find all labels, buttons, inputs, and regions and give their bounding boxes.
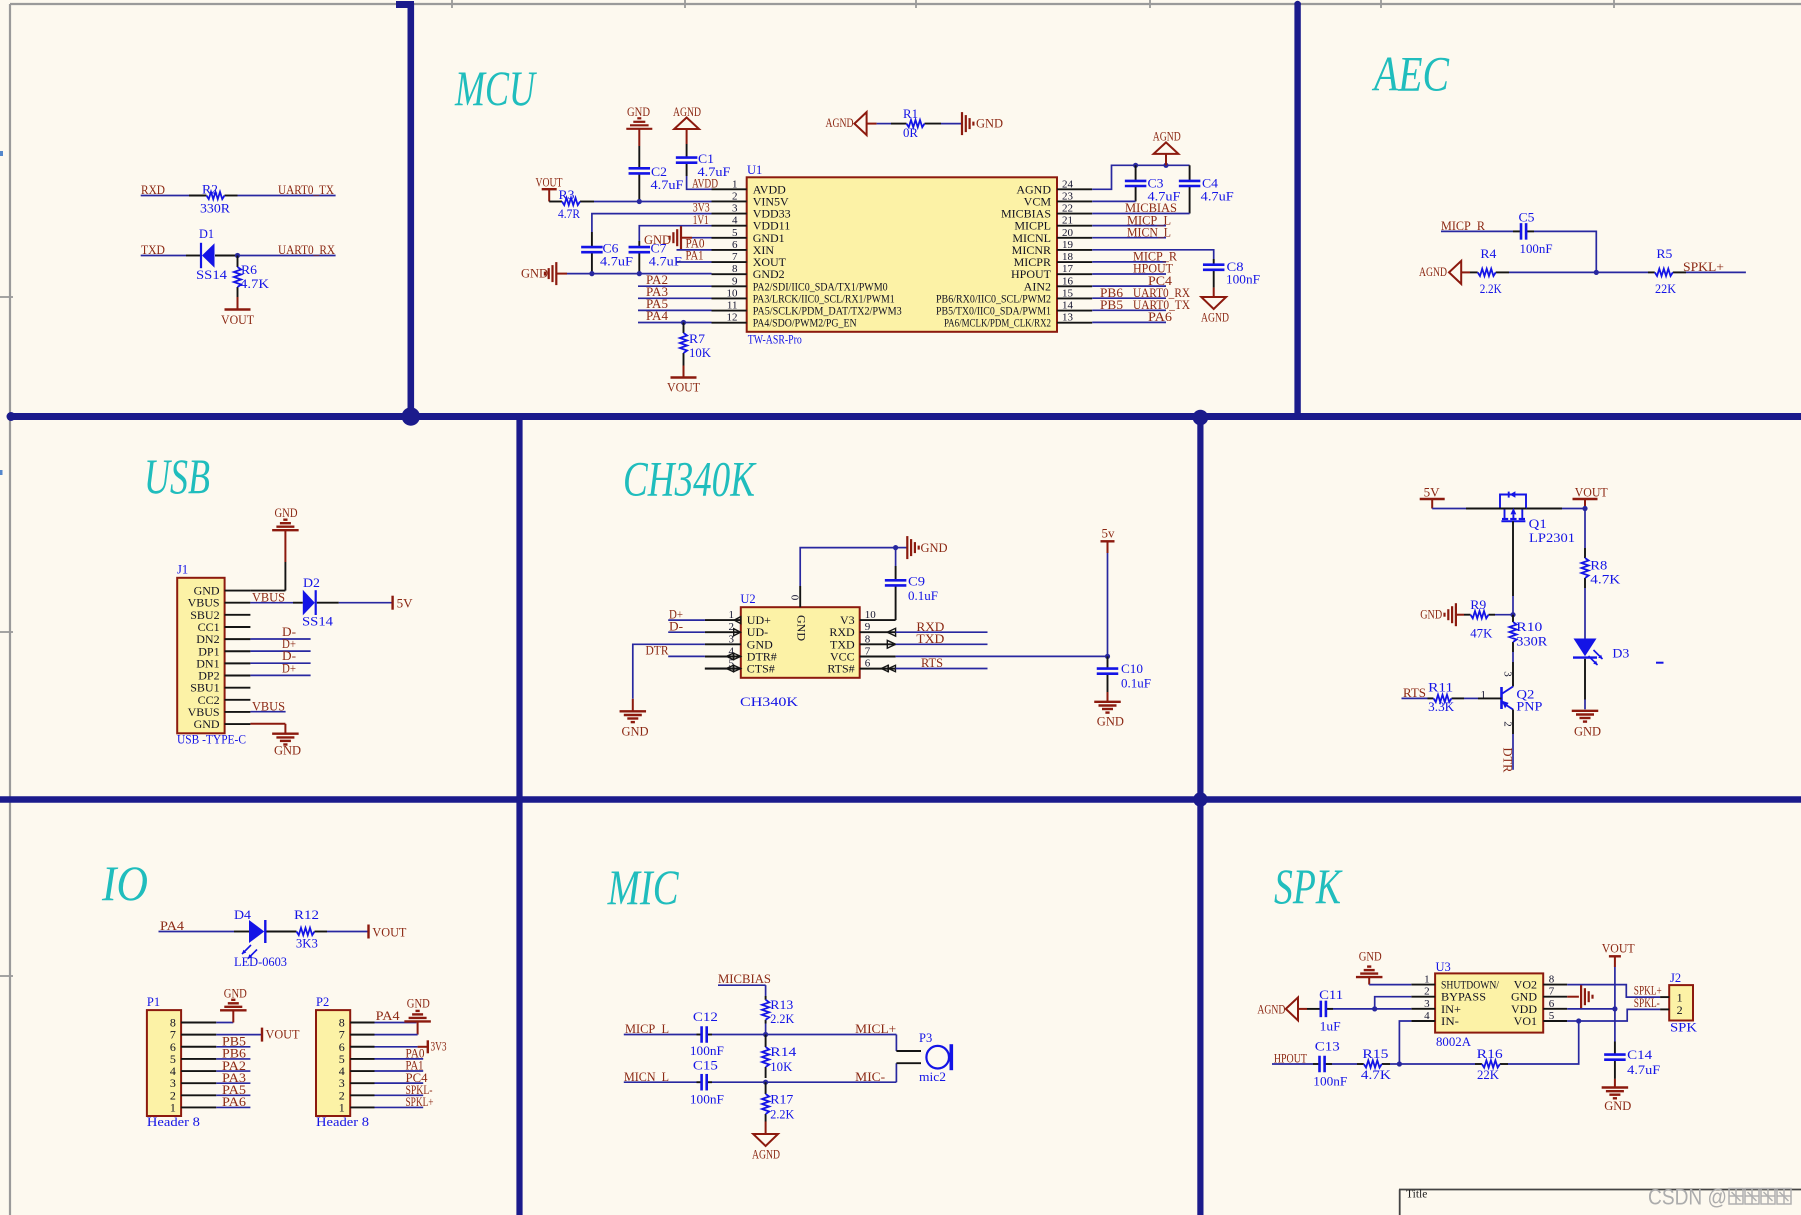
U1 pin 10: [712, 297, 747, 299]
U2 pin 5: [705, 668, 741, 670]
wire D- (U2): [668, 631, 705, 633]
resistor R6: [237, 256, 239, 268]
wire R9 to gate: [1495, 614, 1513, 616]
stray dash: [1656, 662, 1664, 664]
svg-text:MIC: MIC: [607, 859, 679, 915]
wire pin20: [1092, 237, 1166, 239]
P1 pin 8: [181, 1022, 216, 1024]
P2 pin 8: [350, 1022, 374, 1024]
U1 pin 22: [1057, 213, 1092, 215]
svg-text:12: 12: [727, 312, 738, 324]
svg-text:RXD: RXD: [141, 183, 165, 197]
wire P2 SPKL-: [375, 1094, 424, 1096]
resistor R9 47K: [1464, 614, 1471, 616]
section dividers: [8, 413, 1801, 420]
wire MICBIAS: [718, 984, 766, 986]
wire VOUT down: [1584, 509, 1586, 549]
svg-text:VOUT: VOUT: [1575, 486, 1608, 500]
svg-text:R11: R11: [1428, 680, 1453, 694]
U1 pin 13: [1057, 322, 1092, 324]
svg-text:2: 2: [1677, 1003, 1683, 1017]
net RXD wire: [141, 195, 189, 197]
wire P1 PA6: [216, 1106, 250, 1108]
diode D2 SS14: [303, 590, 315, 616]
wire MICN_L: [624, 1081, 697, 1083]
junction C2/pin2: [637, 199, 642, 204]
svg-text:R3: R3: [559, 188, 575, 202]
svg-text:D2: D2: [303, 576, 320, 590]
svg-text:3: 3: [732, 203, 738, 215]
svg-text:R16: R16: [1477, 1047, 1503, 1061]
svg-text:VOUT: VOUT: [1602, 942, 1635, 956]
junction C6 rail: [589, 271, 594, 276]
power port VOUT (R6): [237, 297, 239, 310]
svg-text:MICBIAS: MICBIAS: [718, 972, 771, 986]
power port GND (USB bottom): [272, 733, 299, 735]
svg-text:D4: D4: [234, 908, 252, 922]
wire pin14: [1092, 309, 1166, 311]
J2 pin stubs: [1660, 996, 1669, 998]
svg-text:D+: D+: [282, 661, 296, 675]
wire P1 PB6: [216, 1058, 250, 1060]
wire UART0_TX: [238, 195, 336, 197]
svg-text:RTS#: RTS#: [827, 662, 854, 676]
wire 5v to VCC: [1107, 553, 1109, 656]
P2 pin 3: [350, 1082, 374, 1084]
svg-text:0.1uF: 0.1uF: [1121, 676, 1151, 690]
svg-text:SS14: SS14: [302, 614, 334, 628]
resistor R17 2.2K: [765, 1082, 767, 1094]
power port VOUT (R7): [683, 366, 685, 378]
svg-text:R12: R12: [294, 908, 319, 922]
U2 pin 3: [705, 643, 741, 645]
svg-text:C4: C4: [1202, 177, 1219, 191]
power port GND (R1 row): [961, 112, 963, 135]
svg-text:AGND: AGND: [1419, 265, 1447, 279]
resistor R8 4.7K: [1584, 548, 1586, 558]
U1 pin 12: [712, 322, 747, 324]
wire pin24 to AGND rail: [1092, 165, 1189, 189]
U2 pin 4: [705, 655, 741, 657]
transistor Q2 PNP: [1500, 687, 1503, 709]
resistor R14 10K: [765, 1035, 767, 1048]
svg-text:PA4: PA4: [376, 1009, 401, 1023]
svg-text:VOUT: VOUT: [266, 1027, 300, 1041]
diode D1 SS14: [200, 243, 202, 268]
power port AGND (MIC): [765, 1122, 767, 1135]
capacitor C14 4.7uF: [1614, 1042, 1616, 1054]
svg-text:14: 14: [1062, 300, 1074, 312]
U2 pin 10: [860, 619, 896, 621]
svg-text:IN-: IN-: [1441, 1014, 1459, 1028]
capacitor C10 0.1uF: [1107, 656, 1109, 667]
svg-text:GND: GND: [795, 615, 809, 641]
svg-text:VO1: VO1: [1514, 1014, 1537, 1028]
wire PA5: [638, 309, 712, 311]
svg-text:5V: 5V: [1424, 486, 1440, 500]
capacitor C8 100nF: [1213, 259, 1215, 264]
U2 pin8 arrow + TXD: [887, 640, 895, 648]
wire MICL+ corner to P3: [895, 1035, 897, 1052]
svg-text:11: 11: [727, 300, 738, 312]
svg-text:2.2K: 2.2K: [770, 1012, 794, 1026]
wire P2 PC4: [375, 1082, 424, 1084]
wire P2 pin7 to GND: [375, 1034, 418, 1036]
resistor R3 4.7R: [549, 201, 562, 203]
wire C5 corner: [1534, 231, 1596, 272]
capacitor C12 100nF: [697, 1034, 701, 1036]
J1 pin DN1: [225, 662, 251, 664]
svg-text:1: 1: [339, 1100, 345, 1114]
svg-text:C2: C2: [651, 165, 667, 179]
J1 pin VBUS: [225, 711, 251, 713]
svg-text:8002A: 8002A: [1436, 1035, 1471, 1049]
svg-text:16: 16: [1062, 275, 1074, 287]
U2 pin 2: [705, 631, 741, 633]
wire 5V rail: [1432, 508, 1466, 510]
wire R16 to VO1: [1508, 1021, 1579, 1064]
svg-text:C9: C9: [908, 574, 925, 588]
svg-text:TXD: TXD: [916, 632, 944, 646]
svg-text:DTR: DTR: [646, 643, 670, 657]
svg-text:SPK: SPK: [1670, 1020, 1697, 1034]
U3 pin 6: [1543, 1008, 1567, 1010]
svg-text:J1: J1: [177, 563, 188, 577]
svg-text:PA6: PA6: [222, 1095, 246, 1109]
svg-text:9: 9: [732, 275, 738, 287]
wire top GND rail: [800, 548, 895, 586]
svg-text:CSDN @: CSDN @: [1648, 1185, 1727, 1210]
svg-text:Title: Title: [1406, 1189, 1427, 1201]
wire D+ (U2): [668, 619, 705, 621]
svg-text:GND: GND: [407, 996, 430, 1010]
U3 pin 2: [1411, 996, 1435, 998]
svg-text:R14: R14: [770, 1045, 797, 1059]
wire PA1: [677, 261, 712, 263]
wire SPKL- path: [1579, 1009, 1660, 1021]
mosfet Q1 LP2301: [1500, 495, 1526, 509]
svg-text:C1: C1: [698, 152, 714, 166]
U2 pin6 arrows + RTS: [888, 665, 895, 671]
svg-text:8: 8: [732, 263, 738, 275]
wire R13 to MICL+: [765, 1024, 767, 1035]
svg-text:4.7uF: 4.7uF: [600, 255, 633, 269]
svg-text:UART0_RX: UART0_RX: [278, 243, 335, 257]
wire GND to U3 pin1: [1369, 984, 1411, 986]
P1 pin 4: [181, 1070, 216, 1072]
J1 pin SBU1: [225, 687, 251, 689]
svg-text:CH340K: CH340K: [740, 695, 798, 709]
svg-text:LP2301: LP2301: [1529, 531, 1575, 545]
wire pin22 MICBIAS: [1092, 213, 1189, 215]
wire to GND side: [896, 547, 908, 549]
wire pin17: [1092, 273, 1166, 275]
U1 pin 24: [1057, 188, 1092, 190]
wire 1V1 corner: [639, 226, 711, 241]
svg-text:SPKL+: SPKL+: [1683, 260, 1724, 274]
U2 pin 1: [705, 619, 741, 621]
svg-text:J2: J2: [1670, 971, 1681, 985]
wire pin19 to C8: [1092, 250, 1214, 259]
svg-text:P2: P2: [316, 995, 329, 1009]
wire pin5: [692, 237, 712, 239]
wire R15 to R16: [1390, 1063, 1475, 1065]
MCU U1 TW-ASR-Pro: [747, 177, 1057, 331]
net TXD wire: [141, 255, 186, 257]
wire VCC to 5v: [896, 655, 1108, 657]
wire PA4: [638, 322, 712, 324]
header P1: [147, 1010, 181, 1116]
junction AEC: [1594, 270, 1599, 275]
wire Q1 gate down: [1512, 521, 1514, 596]
U1 pin 21: [1057, 225, 1092, 227]
svg-text:R5: R5: [1656, 247, 1672, 261]
wire P2 pin6 to 3V3: [375, 1046, 418, 1048]
svg-text:UART0_TX: UART0_TX: [278, 183, 334, 197]
U2 pin 6: [860, 668, 896, 670]
svg-text:TXD: TXD: [141, 243, 165, 257]
svg-text:GND: GND: [521, 267, 548, 281]
U1 pin 17: [1057, 273, 1092, 275]
svg-text:3: 3: [1424, 998, 1430, 1010]
junction C7 rail: [637, 271, 642, 276]
wire VBUS lower: [250, 711, 285, 713]
svg-text:GND: GND: [194, 717, 220, 731]
U1 pin 7: [712, 261, 747, 263]
svg-text:MICN_L: MICN_L: [1127, 225, 1171, 239]
svg-text:C5: C5: [1519, 210, 1535, 224]
wire R10 to Q2 collector: [1512, 652, 1514, 662]
J1 pin DP1: [225, 650, 251, 652]
svg-text:TW-ASR-Pro: TW-ASR-Pro: [748, 333, 802, 347]
svg-text:2: 2: [1424, 986, 1430, 998]
USB connector J1: [177, 578, 224, 734]
svg-text:VOUT: VOUT: [372, 926, 406, 940]
svg-text:4.7K: 4.7K: [1361, 1068, 1391, 1082]
wire MIC- corner to P3: [895, 1063, 897, 1082]
svg-text:R13: R13: [770, 998, 793, 1012]
svg-text:5v: 5v: [1102, 526, 1116, 540]
power port VOUT (D4): [367, 925, 369, 939]
svg-text:GND: GND: [1574, 725, 1601, 739]
svg-text:R10: R10: [1516, 620, 1542, 634]
U1 pin 14: [1057, 310, 1092, 312]
P1 pin 6: [181, 1046, 216, 1048]
wire pin18: [1092, 261, 1166, 263]
wire P1 PB5: [216, 1046, 250, 1048]
wire RTS: [1402, 697, 1428, 699]
wire P1 PA2: [216, 1070, 250, 1072]
capacitor C3 4.7uF: [1135, 165, 1137, 180]
svg-text:3K3: 3K3: [296, 937, 318, 951]
wire U2 GND: [633, 644, 705, 699]
svg-text:D1: D1: [199, 227, 214, 241]
svg-text:SPKL+: SPKL+: [406, 1095, 434, 1109]
U1 pin 3: [712, 213, 747, 215]
U1 pin 2: [712, 200, 747, 202]
svg-text:0.1uF: 0.1uF: [908, 589, 938, 603]
svg-text:P1: P1: [147, 995, 160, 1009]
svg-text:0R: 0R: [903, 126, 919, 140]
svg-text:2.2K: 2.2K: [1480, 282, 1502, 296]
wire PA3: [638, 297, 712, 299]
svg-text:CH340K: CH340K: [623, 451, 757, 507]
svg-text:C14: C14: [1627, 1048, 1653, 1062]
speaker connector J2 SPK: [1669, 985, 1693, 1020]
junction BYPASS: [1372, 1006, 1377, 1011]
wire PA0: [677, 249, 712, 251]
junction node UART0_RX: [235, 253, 240, 258]
wire Q2 emitter to DTR: [1512, 710, 1514, 735]
svg-text:P3: P3: [919, 1031, 932, 1045]
wire P1 pin7 to VOUT: [216, 1034, 262, 1036]
wire R12 to VOUT: [327, 931, 369, 933]
svg-text:R9: R9: [1470, 598, 1486, 612]
svg-text:C10: C10: [1121, 662, 1143, 676]
U2 pin arrows: [734, 617, 741, 624]
P1 pin 5: [181, 1058, 216, 1060]
wire R4 to junction: [1509, 271, 1596, 273]
svg-text:100nF: 100nF: [690, 1044, 724, 1058]
svg-text:1: 1: [729, 609, 735, 621]
wire C15 to P3 corner: [712, 1081, 896, 1083]
svg-text:2: 2: [732, 190, 738, 202]
J1 pin VBUS: [225, 602, 251, 604]
wire R11 to base: [1464, 697, 1478, 699]
wire P2 SPKL+: [375, 1106, 424, 1108]
resistor R1 0R: [877, 123, 891, 125]
svg-text:20: 20: [1062, 227, 1074, 239]
resistor R13 2.2K: [765, 996, 767, 1000]
wire PA4 to D4: [159, 931, 235, 933]
svg-text:AGND: AGND: [1201, 311, 1229, 325]
junction VO1: [1576, 1018, 1581, 1023]
wire MICP_R to C5: [1441, 230, 1513, 232]
svg-text:R4: R4: [1480, 247, 1497, 261]
wire GND bottom: [250, 723, 285, 725]
svg-text:1uF: 1uF: [1320, 1020, 1341, 1034]
svg-text:C13: C13: [1315, 1040, 1340, 1054]
wire pin15: [1092, 297, 1166, 299]
junction VCC 5v: [1105, 654, 1110, 659]
wire VBUS to D2: [250, 602, 293, 604]
svg-text:U2: U2: [740, 592, 755, 606]
svg-text:R2: R2: [202, 183, 218, 197]
P2 pin 4: [350, 1070, 374, 1072]
svg-text:D3: D3: [1612, 646, 1629, 660]
svg-text:SPK: SPK: [1274, 858, 1343, 914]
U2 CH340K chip: [741, 607, 860, 678]
resistor R4 2.2K: [1470, 271, 1478, 273]
capacitor C2 4.7uF: [638, 146, 640, 167]
svg-text:5: 5: [1549, 1010, 1555, 1022]
junction C3 rail: [1133, 163, 1138, 168]
svg-text:AGND: AGND: [826, 116, 854, 130]
U1 pin 4: [712, 225, 747, 227]
J1 pin GND: [225, 723, 251, 725]
U2 CTS stub: [705, 668, 741, 670]
svg-text:C15: C15: [693, 1059, 718, 1073]
U1 pin 1: [712, 188, 747, 190]
P1 pin 2: [181, 1094, 216, 1096]
U3 pin 8: [1543, 984, 1567, 986]
svg-text:USB -TYPE-C: USB -TYPE-C: [177, 733, 246, 747]
svg-text:AVDD: AVDD: [692, 176, 718, 190]
P2 pin 6: [350, 1046, 374, 1048]
wire R3 to pin2: [594, 201, 712, 203]
svg-text:GND: GND: [622, 724, 649, 738]
wire VO1: [1567, 1020, 1579, 1022]
wire P1 pin8 to GND: [216, 1022, 233, 1024]
capacitor C5 100nF: [1513, 230, 1520, 232]
U3 pin 1: [1411, 984, 1435, 986]
capacitor C7 4.7uF: [638, 241, 640, 246]
power port 3V3 (P2): [427, 1040, 429, 1053]
svg-text:AGND: AGND: [752, 1148, 780, 1162]
svg-text:C3: C3: [1148, 177, 1164, 191]
svg-text:0: 0: [789, 595, 801, 601]
U2 pin9 arrow + RXD: [887, 628, 895, 636]
svg-text:4: 4: [1424, 1010, 1430, 1022]
led D4: [249, 920, 264, 943]
svg-text:R17: R17: [770, 1092, 793, 1106]
U1 pin 9: [712, 285, 747, 287]
svg-text:RTS: RTS: [921, 656, 943, 670]
J1 pin CC1: [225, 626, 251, 628]
svg-text:LED-0603: LED-0603: [234, 955, 287, 969]
svg-text:330R: 330R: [1516, 634, 1548, 648]
wire DN2: [250, 638, 310, 640]
power port GND (C14): [1614, 1079, 1616, 1088]
svg-text:100nF: 100nF: [1520, 242, 1553, 256]
junction VDD/VOUT: [1612, 1006, 1617, 1011]
svg-text:PB5: PB5: [1100, 298, 1123, 312]
wire DP1: [250, 650, 310, 652]
junction R15/R16/IN-: [1397, 1061, 1402, 1066]
wire D2 to 5V: [339, 602, 393, 604]
svg-text:GND: GND: [1097, 714, 1124, 728]
U1 pin 11: [712, 310, 747, 312]
capacitor C6 4.7uF: [591, 232, 593, 246]
svg-text:10: 10: [727, 287, 739, 299]
junction VOUT: [1582, 506, 1587, 511]
svg-text:Q1: Q1: [1529, 517, 1547, 531]
capacitor C13 100nF: [1313, 1063, 1319, 1065]
wire VDD: [1567, 1008, 1615, 1010]
wire P2 pin8 PA4: [375, 1022, 417, 1024]
svg-text:GND: GND: [1359, 949, 1382, 963]
svg-text:PA1: PA1: [686, 249, 704, 263]
wire C13 to R15: [1332, 1063, 1357, 1065]
P1 pin 1: [181, 1106, 216, 1108]
junction R7: [681, 320, 686, 325]
svg-text:4.7R: 4.7R: [558, 207, 581, 221]
left edge fragment: [0, 151, 3, 156]
svg-text:6: 6: [865, 658, 871, 670]
U1 pin 20: [1057, 237, 1092, 239]
U1 pin 18: [1057, 261, 1092, 263]
svg-text:4.7K: 4.7K: [240, 277, 269, 291]
wire D3 to GND: [1584, 659, 1586, 700]
wire pin23 VCM: [1092, 200, 1135, 202]
svg-text:Header 8: Header 8: [316, 1115, 369, 1129]
U2 pin 8: [860, 643, 896, 645]
svg-text:GND: GND: [976, 117, 1003, 131]
wire IN- down: [1399, 1021, 1411, 1064]
svg-text:GND: GND: [274, 744, 301, 758]
U1 pin 8: [712, 273, 747, 275]
svg-text:6: 6: [732, 239, 738, 251]
